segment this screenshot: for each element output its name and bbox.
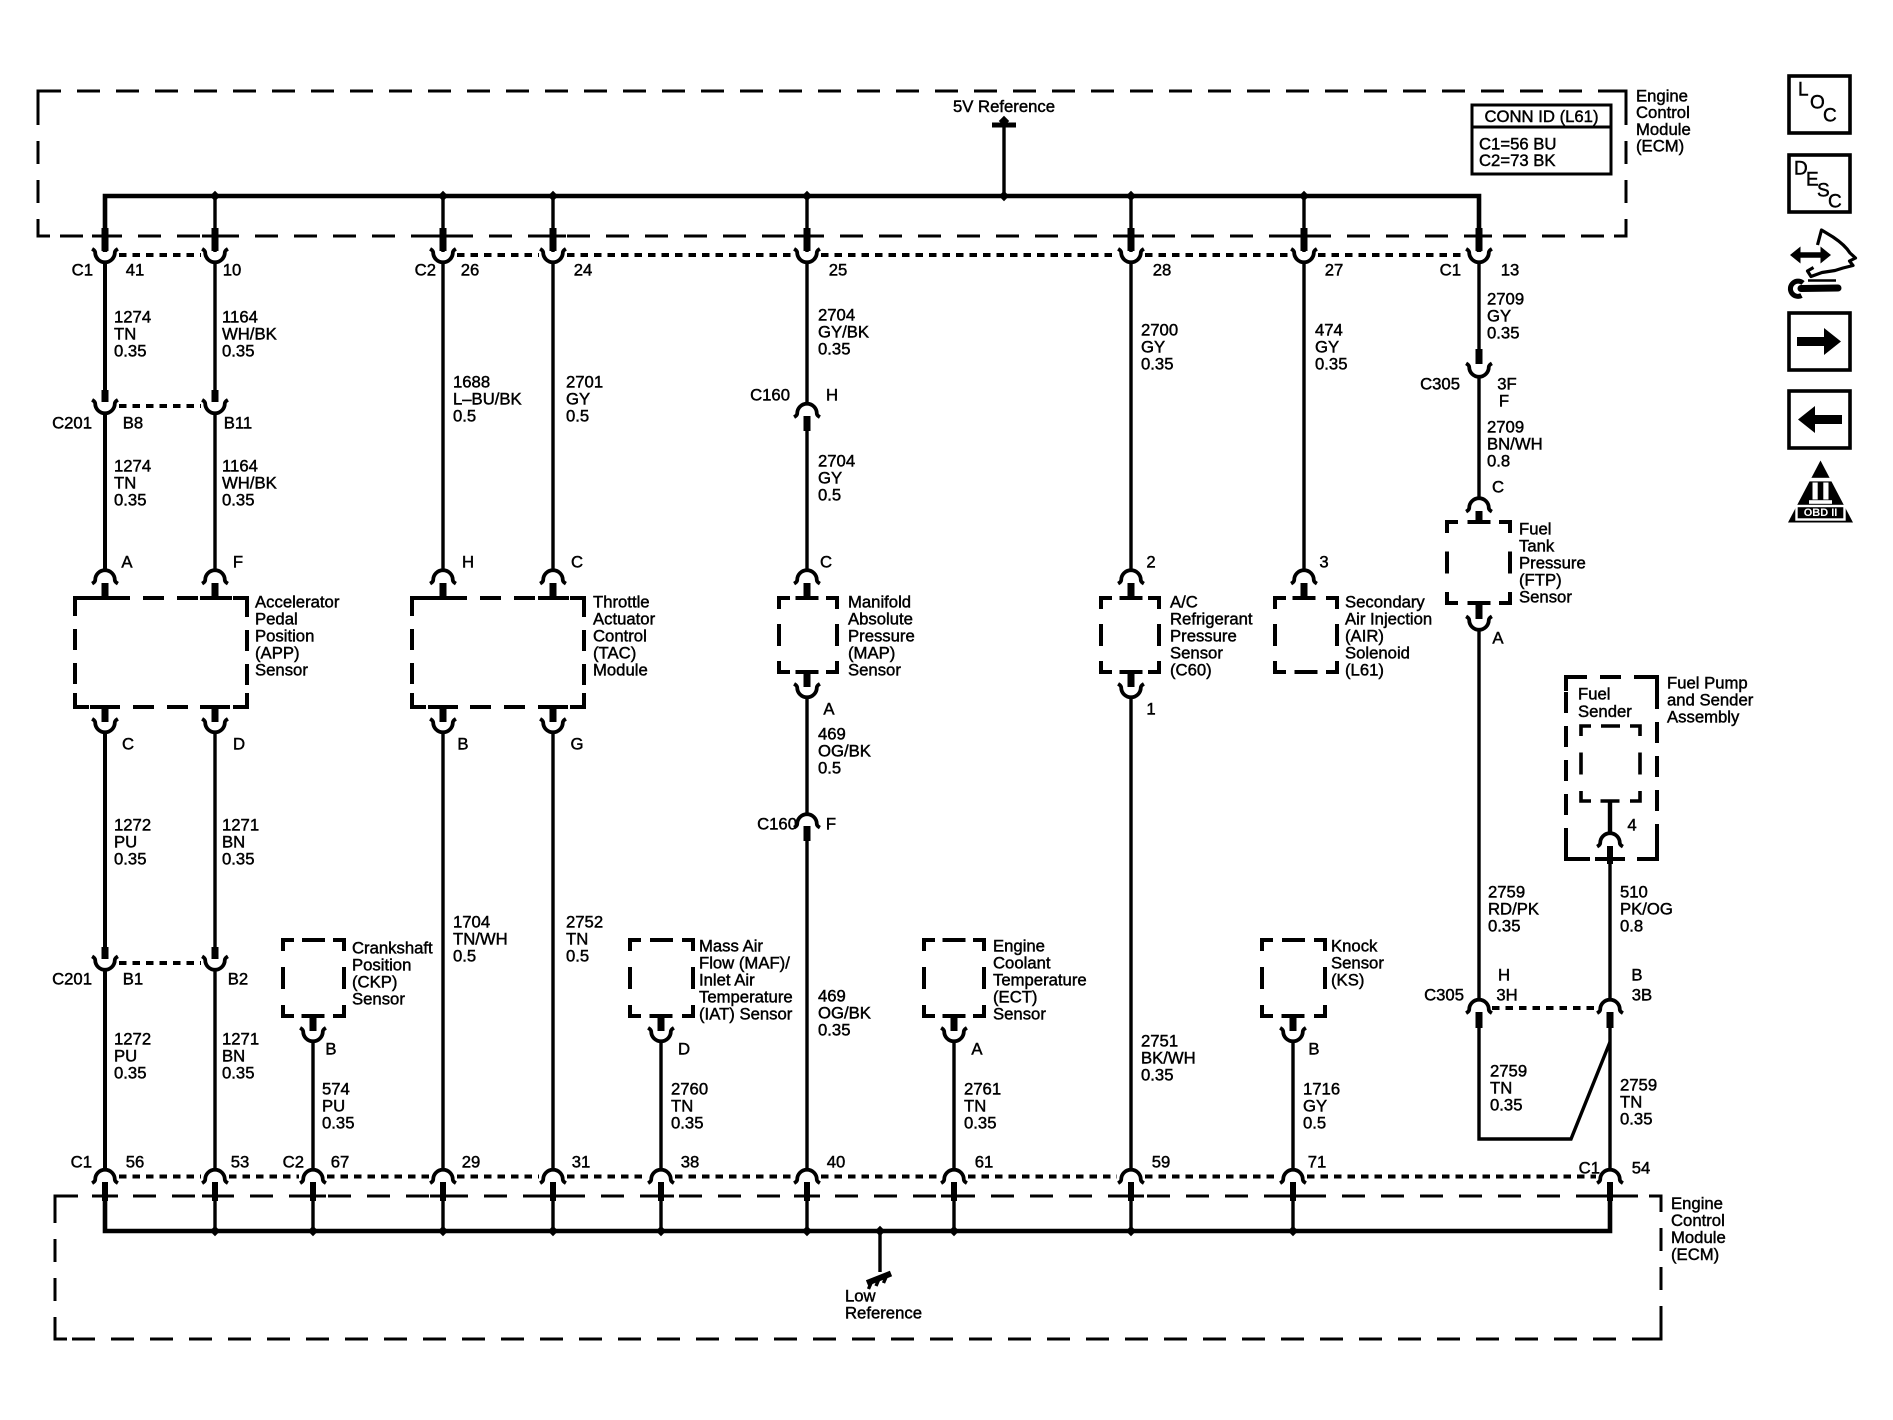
svg-text:Sensor: Sensor [848,661,901,680]
ground: Low Reference [878,1231,881,1272]
svg-text:3H: 3H [1496,986,1517,1005]
icon OBD II triangle [1788,461,1853,523]
svg-text:67: 67 [331,1153,350,1172]
svg-text:B: B [1631,966,1642,985]
svg-text:Sensor: Sensor [352,990,405,1009]
wire 1164 WH/BK (pin 10 to C201 B11) [213,263,216,391]
svg-text:0.5: 0.5 [818,486,841,505]
svg-text:29: 29 [462,1153,481,1172]
junction [210,191,220,201]
svg-text:C160: C160 [750,386,790,405]
svg-text:0.35: 0.35 [1141,1066,1173,1085]
svg-text:40: 40 [827,1153,846,1172]
wire 2759 TN (C305 3B down to ECM C1 54) [1608,1028,1611,1171]
wire 2759 TN (C305 3H jog to pin 54 net) [1479,1028,1610,1139]
svg-text:B: B [325,1040,336,1059]
sensor bottom pin A [951,1016,958,1031]
wire: 5V tap down to bus [1002,125,1005,196]
junction [438,191,448,201]
svg-text:(L61): (L61) [1345,661,1384,680]
svg-text:0.35: 0.35 [1620,1110,1652,1129]
svg-text:0.35: 0.35 [114,1064,146,1083]
wire 1688 L-BU/BK (pin 26 to TAC H) [441,262,444,572]
junction [656,1226,666,1236]
svg-text:Sensor: Sensor [993,1005,1046,1024]
svg-text:0.35: 0.35 [222,491,254,510]
svg-text:0.35: 0.35 [671,1114,703,1133]
svg-text:H: H [462,553,474,572]
icon LOC box [1789,76,1850,133]
svg-text:C: C [571,553,583,572]
svg-text:C: C [1823,106,1837,127]
svg-text:A: A [121,553,133,572]
svg-text:B: B [1308,1040,1319,1059]
Fuel Sender inner box [1581,726,1591,736]
svg-text:0.5: 0.5 [453,947,476,966]
svg-text:A: A [1492,629,1504,648]
svg-text:0.35: 0.35 [1315,355,1347,374]
svg-text:B11: B11 [224,414,252,433]
Engine Control Module (ECM) top dashed box [38,91,1626,236]
svg-text:Module: Module [593,661,648,680]
fuel sender pin 4 [1608,801,1612,834]
svg-text:31: 31 [572,1153,591,1172]
svg-text:53: 53 [231,1153,250,1172]
Secondary Air Injection (AIR) Solenoid (L61) box [1275,598,1286,609]
svg-text:25: 25 [829,261,848,280]
svg-text:OBD II: OBD II [1804,507,1838,519]
svg-text:0.35: 0.35 [818,1021,850,1040]
wire 474 GY (pin 27 to AIR solenoid 3) [1302,262,1305,572]
connector C201 row B1/B2 [102,947,109,959]
svg-text:C305: C305 [1424,986,1464,1005]
svg-text:59: 59 [1152,1153,1171,1172]
Mass Air Flow (MAF)/Inlet Air Temperature (IAT) Sensor box [630,940,641,951]
svg-text:56: 56 [126,1153,145,1172]
svg-text:28: 28 [1153,261,1172,280]
svg-text:C1: C1 [1579,1159,1600,1178]
Crankshaft Position (CKP) Sensor box [283,940,294,951]
svg-text:D: D [678,1040,690,1059]
sensor bottom pin A [804,672,811,687]
svg-text:71: 71 [1308,1153,1327,1172]
svg-text:3B: 3B [1632,986,1652,1005]
svg-text:L: L [1798,80,1809,101]
svg-text:C1: C1 [1440,261,1461,280]
wire 2751 BK/WH (A/C sensor 1 to pin 59) [1129,697,1132,1171]
ECM top connector pins [102,228,109,251]
svg-text:Assembly: Assembly [1667,708,1740,727]
svg-text:(ECM): (ECM) [1671,1245,1719,1264]
connector line C2 pins 26-27 and C1 13 [457,253,539,257]
sensor bottom pin B [1290,1016,1297,1031]
svg-text:41: 41 [126,261,145,280]
svg-text:0.35: 0.35 [1141,355,1173,374]
Engine Control Module (ECM) bottom dashed box [55,1196,1661,1339]
svg-text:F: F [233,553,243,572]
sensor bottom pin B [310,1016,317,1031]
sensor bottom pin D [658,1016,665,1031]
wire 1716 GY (KS B to pin 71) [1291,1041,1294,1171]
Knock Sensor (KS) box [1262,940,1273,951]
svg-text:H: H [1498,966,1510,985]
junction [949,1226,959,1236]
svg-text:C2=73 BK: C2=73 BK [1479,151,1556,170]
wire 2709 GY (pin 13 to C305 3F) [1477,262,1480,351]
svg-text:C: C [122,735,134,754]
wire 2704 GY (C160 H to MAP C) [805,431,808,572]
junction [875,1226,885,1236]
svg-text:0.5: 0.5 [566,407,589,426]
svg-text:(ECM): (ECM) [1636,137,1684,156]
svg-text:0.35: 0.35 [322,1114,354,1133]
svg-text:5V Reference: 5V Reference [953,97,1055,116]
svg-text:24: 24 [574,261,593,280]
Manifold Absolute Pressure (MAP) Sensor box [779,598,790,609]
svg-text:C1: C1 [72,261,93,280]
svg-text:(C60): (C60) [1170,661,1212,680]
sensor bottom pin B [440,707,447,722]
svg-text:Sensor: Sensor [255,661,308,680]
svg-text:0.35: 0.35 [114,342,146,361]
wire 2709 BN/WH (C305 3F to FTP C) [1477,377,1480,500]
svg-text:C160: C160 [757,815,797,834]
svg-text:H: H [826,386,838,405]
svg-text:27: 27 [1325,261,1344,280]
svg-text:A: A [823,700,835,719]
icon wiring repair (wrench + arrows) [1790,247,1831,264]
wire 469 OG/BK (C160 F to pin 40) [805,841,808,1171]
svg-text:0.35: 0.35 [1487,324,1519,343]
svg-text:(IAT) Sensor: (IAT) Sensor [699,1005,793,1024]
svg-text:10: 10 [223,261,242,280]
svg-text:C305: C305 [1420,375,1460,394]
junction [802,191,812,201]
svg-text:D: D [233,735,245,754]
junction [1299,191,1309,201]
Throttle Actuator Control (TAC) Module box [412,598,584,707]
svg-text:0.35: 0.35 [1488,917,1520,936]
svg-text:(KS): (KS) [1331,971,1364,990]
svg-text:0.8: 0.8 [1620,917,1643,936]
svg-text:3: 3 [1319,553,1328,572]
svg-text:Sensor: Sensor [1519,588,1572,607]
svg-text:0.35: 0.35 [964,1114,996,1133]
svg-text:0.35: 0.35 [114,850,146,869]
junction [1126,191,1136,201]
svg-text:38: 38 [681,1153,700,1172]
svg-text:0.5: 0.5 [453,407,476,426]
svg-text:C201: C201 [52,414,92,433]
svg-text:0.5: 0.5 [566,947,589,966]
connector line bottom row [119,1175,201,1179]
CONN ID (L61) table [1472,105,1611,174]
svg-text:54: 54 [1632,1159,1651,1178]
svg-text:F: F [826,815,836,834]
wire 469 OG/BK (MAP A to C160 F) [805,697,808,815]
svg-text:F: F [1499,392,1509,411]
junction [802,1226,812,1236]
Accelerator Pedal Position (APP) Sensor box [75,598,247,707]
svg-text:0.35: 0.35 [114,491,146,510]
wire 2760 TN (MAF D to pin 38) [659,1041,662,1171]
connector C160 pin F [794,814,820,827]
svg-text:B: B [457,735,468,754]
wire: pin stubs to bus [213,1200,216,1231]
Engine Coolant Temperature (ECT) Sensor box [924,940,935,951]
connector C201 row B8/B11 [102,390,109,402]
ECM bottom connector pins [92,1170,118,1183]
connector C305 row 3H/3B [1466,1000,1492,1013]
svg-text:A: A [971,1040,983,1059]
connector C305 pin 3F [1476,349,1483,364]
svg-text:C201: C201 [52,970,92,989]
svg-text:26: 26 [461,261,480,280]
sensor bottom pin 1 [1128,672,1135,687]
sensor bottom pin D [212,707,219,722]
Fuel Pump and Sender Assembly box [1566,677,1657,859]
svg-text:0.8: 0.8 [1487,452,1510,471]
svg-text:C2: C2 [415,261,436,280]
wire 1272 PU (APP C to C201 B1) [103,732,107,948]
svg-text:C2: C2 [283,1153,304,1172]
junction [1288,1226,1298,1236]
svg-text:C1: C1 [71,1153,92,1172]
wire 1274 TN (pin 41 to C201 B8) [103,263,107,391]
junction [438,1226,448,1236]
svg-text:2: 2 [1146,553,1155,572]
svg-text:Reference: Reference [845,1304,922,1323]
icon back arrow box [1789,391,1850,448]
svg-text:0.35: 0.35 [222,1064,254,1083]
wire 2759 RD/PK (FTP A to C305 3H) [1477,629,1480,1001]
svg-text:C: C [1492,478,1504,497]
wire: bus drops to ECM pins [213,196,216,252]
svg-text:4: 4 [1627,816,1636,835]
svg-text:0.5: 0.5 [818,759,841,778]
junction [308,1226,318,1236]
wire 2761 TN (ECT A to pin 61) [952,1041,955,1171]
svg-text:61: 61 [975,1153,994,1172]
sensor bottom pin C [102,707,109,722]
svg-text:0.35: 0.35 [1490,1096,1522,1115]
svg-text:CONN ID (L61): CONN ID (L61) [1484,107,1598,126]
svg-text:C: C [820,553,832,572]
svg-text:0.35: 0.35 [222,342,254,361]
svg-text:C: C [1828,192,1842,213]
wire 1271 BN (APP D to C201 B2) [213,732,216,948]
svg-text:1: 1 [1146,700,1155,719]
5V Reference power tap symbol [992,123,1016,128]
wire: bottom low reference bus [105,1200,1610,1231]
junction [999,191,1009,201]
wire 2700 GY (pin 28 to A/C sensor 2) [1129,262,1132,572]
Fuel Tank Pressure (FTP) Sensor box [1447,522,1458,533]
svg-text:B8: B8 [123,414,143,433]
connector C160 pin H [794,404,820,417]
wire 510 PK/OG (pin 4 to C305 3B) [1608,863,1611,1001]
icon forward arrow box [1789,313,1850,370]
wire 574 PU (CKP B to pin 67) [311,1041,314,1171]
svg-text:0.35: 0.35 [818,340,850,359]
icon DESC box [1789,155,1850,212]
connector line C1 pins 41-10 [119,253,201,257]
FTP sensor pin A [1476,603,1483,619]
A/C Refrigerant Pressure Sensor (C60) box [1101,598,1112,609]
junction [210,1226,220,1236]
svg-text:G: G [571,735,584,754]
junction [548,1226,558,1236]
svg-text:0.5: 0.5 [1303,1114,1326,1133]
svg-text:B1: B1 [123,970,143,989]
junction [1126,1226,1136,1236]
svg-text:Sender: Sender [1578,702,1632,721]
wire 2704 GY/BK (pin 25 to C160 H) [805,262,808,405]
wire 2752 TN (TAC G to pin 31) [551,732,554,1171]
svg-text:0.35: 0.35 [222,850,254,869]
junction [548,191,558,201]
svg-text:Fuel: Fuel [1578,685,1610,704]
wire 2701 GY (pin 24 to TAC C) [551,262,554,572]
sensor bottom pin G [550,707,557,722]
wire: top 5V reference bus [105,196,1479,252]
svg-text:13: 13 [1501,261,1520,280]
svg-text:B2: B2 [228,970,248,989]
wire 1704 TN/WH (TAC B to pin 29) [441,732,444,1171]
ground symbol [867,1274,891,1284]
